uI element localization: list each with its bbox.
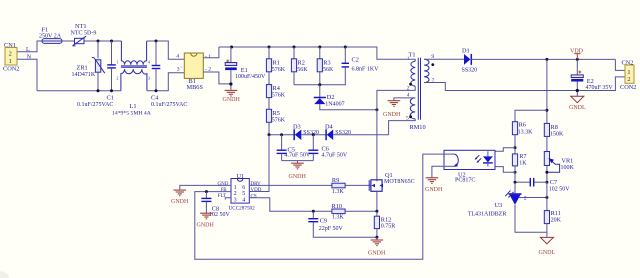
- diode D1 SS320: [424, 47, 615, 73]
- svg-text:Q1: Q1: [385, 172, 393, 179]
- resistor R11 20K: [544, 182, 561, 237]
- capacitor C5 4.7uF 50V: [277, 135, 311, 161]
- svg-text:102 50V: 102 50V: [549, 187, 571, 193]
- capacitor C2 6.8nF 1KV: [342, 47, 380, 72]
- svg-text:L1: L1: [130, 103, 137, 110]
- resistor R6 13.3K: [512, 110, 547, 148]
- resistor R5 576K: [266, 109, 285, 123]
- diode D2 1N4007: [314, 85, 377, 110]
- node junction bottom rail at ZR1: [97, 89, 100, 92]
- node junction R12 bottom at C9: [375, 236, 378, 239]
- resistor R2 56K: [291, 47, 308, 85]
- svg-text:3: 3: [148, 77, 150, 81]
- op-amp U1 UCC287502 controller: [229, 173, 256, 212]
- svg-text:MOT8N65C: MOT8N65C: [384, 179, 415, 185]
- wire opto LED anode: [495, 148, 515, 152]
- wire T1 pin4 to ground: [394, 98, 415, 101]
- svg-text:C2: C2: [352, 57, 359, 64]
- svg-text:NTC 5D-9: NTC 5D-9: [71, 31, 97, 37]
- capacitor C6 4.7uF 50V: [308, 135, 348, 161]
- svg-text:D4: D4: [325, 123, 334, 130]
- resistor R12 0.75R: [374, 211, 395, 237]
- svg-text:VDD: VDD: [251, 188, 262, 193]
- fuse F1 250V 2A: [39, 27, 74, 44]
- node junction diode row at R5: [268, 133, 271, 136]
- svg-text:U3: U3: [495, 202, 503, 209]
- transistor Q1 MOT8N65C: [369, 172, 414, 211]
- node junction Vout rail at R8 column: [545, 58, 548, 61]
- wire HV DC top rail: [219, 47, 415, 61]
- svg-text:SS320: SS320: [335, 130, 351, 136]
- resistor R9 1.3K: [332, 177, 370, 195]
- node junction DC rail at R1: [268, 46, 271, 49]
- node junction drain at D2: [375, 108, 378, 111]
- svg-text:R6: R6: [519, 121, 526, 128]
- svg-text:1: 1: [9, 58, 12, 65]
- svg-text:NT1: NT1: [75, 23, 87, 30]
- svg-text:56K: 56K: [297, 67, 308, 73]
- svg-text:100uF/450V: 100uF/450V: [235, 74, 266, 80]
- capacitor C4 0.1uF/275VAC: [151, 41, 187, 108]
- svg-text:GNDH: GNDH: [289, 174, 307, 180]
- ground GNDH at C8: [197, 213, 215, 228]
- pin VDD U1 wire: [249, 135, 269, 193]
- ground GNDH at T1 pin4: [383, 101, 401, 118]
- svg-text:C9: C9: [320, 217, 327, 224]
- svg-text:0.1uF/275VAC: 0.1uF/275VAC: [151, 102, 187, 108]
- svg-text:1: 1: [117, 61, 119, 65]
- svg-text:UCC287502: UCC287502: [229, 206, 256, 212]
- node junction DC rail at R3: [318, 46, 321, 49]
- svg-text:R5: R5: [273, 110, 280, 117]
- svg-text:576K: 576K: [272, 67, 286, 73]
- svg-text:D1: D1: [462, 47, 470, 54]
- svg-text:R3: R3: [323, 59, 330, 66]
- svg-text:R12: R12: [381, 216, 392, 223]
- node junction bottom rail at C1: [110, 89, 113, 92]
- node junction mid rail at D2: [318, 83, 321, 86]
- svg-text:1.3K: 1.3K: [332, 189, 345, 195]
- svg-text:SS320: SS320: [303, 130, 319, 136]
- svg-text:1: 1: [627, 69, 630, 76]
- svg-text:SS320: SS320: [462, 67, 478, 73]
- capacitor E2 470uF 35V: [571, 59, 613, 96]
- svg-text:576K: 576K: [272, 93, 286, 99]
- node junction diode row at C6: [312, 133, 315, 136]
- svg-text:GNDL: GNDL: [569, 105, 586, 111]
- node junction source at R10: [375, 210, 378, 213]
- node junction opto anode R6 R7: [514, 146, 517, 149]
- svg-text:1: 1: [234, 185, 237, 191]
- svg-text:CN2: CN2: [622, 59, 634, 66]
- wire Vout rail to CN2 pin1: [615, 59, 625, 70]
- wire B1 pin2 to ground node: [203, 72, 231, 84]
- svg-text:GNDH: GNDH: [197, 223, 215, 229]
- svg-text:1.3K: 1.3K: [332, 215, 345, 221]
- pin GND U1 wire: [180, 182, 231, 190]
- capacitor C1 0.1uF/275VAC: [77, 41, 116, 108]
- svg-text:13.3K: 13.3K: [518, 129, 534, 135]
- ground GNDH at C5 C6: [289, 163, 307, 180]
- inductor L1 common-mode choke 14*9*5 5MH 4A: [112, 41, 152, 116]
- diode D4 SS320: [325, 123, 389, 140]
- svg-text:RM10: RM10: [410, 124, 426, 131]
- wire opto LED cathode: [495, 167, 515, 173]
- optocoupler U2 PC817C: [444, 150, 495, 183]
- svg-text:R11: R11: [551, 210, 561, 217]
- svg-text:T1: T1: [409, 52, 416, 59]
- node junction Vout rail at E2: [576, 58, 579, 61]
- svg-text:TL431AIDBZR: TL431AIDBZR: [468, 212, 507, 218]
- wire T1 pin5 to D4: [389, 119, 416, 135]
- svg-text:R1: R1: [273, 59, 280, 66]
- svg-text:E2: E2: [587, 78, 594, 85]
- node junction L-rail at C1: [110, 40, 113, 43]
- varistor ZR1 14D471K: [72, 41, 105, 91]
- svg-text:GNDH: GNDH: [383, 112, 401, 118]
- svg-text:4: 4: [242, 197, 245, 203]
- node junction FB at C8: [205, 190, 208, 193]
- svg-text:PC817C: PC817C: [455, 178, 475, 184]
- thermistor NT1 NTC 5D-9: [71, 23, 97, 46]
- svg-text:GNDH: GNDH: [171, 199, 189, 205]
- pin FLT U1 stub: [218, 194, 231, 199]
- node junction CS row at C9: [312, 210, 315, 213]
- svg-text:5: 5: [242, 191, 245, 197]
- node N: [27, 55, 32, 61]
- pin DRV U1 wire to R9: [249, 182, 332, 187]
- resistor R3 56K: [317, 47, 334, 85]
- svg-text:CON2: CON2: [3, 66, 19, 73]
- svg-text:56K: 56K: [323, 67, 334, 73]
- ground GNDH at E1: [223, 90, 241, 103]
- svg-text:2: 2: [407, 86, 410, 92]
- node junction E1 negative and B1 pin2: [229, 82, 232, 85]
- resistor R1 576K: [266, 47, 285, 73]
- svg-text:3: 3: [234, 197, 237, 203]
- svg-text:2: 2: [627, 76, 630, 83]
- svg-text:150K: 150K: [550, 132, 564, 138]
- svg-text:2: 2: [9, 51, 12, 58]
- node junction C7 right: [545, 181, 548, 184]
- capacitor E1 100uF/450V: [225, 47, 266, 90]
- regulator U3 TL431AIDBZR: [468, 182, 547, 232]
- resistor R7 1K: [512, 148, 527, 183]
- svg-text:4.7uF 50V: 4.7uF 50V: [322, 152, 348, 158]
- svg-text:MB6S: MB6S: [187, 84, 204, 91]
- connector CN1: [3, 42, 19, 73]
- node L: [26, 47, 30, 53]
- svg-text:CS: CS: [251, 194, 257, 199]
- svg-text:2: 2: [117, 77, 119, 81]
- svg-text:4: 4: [176, 53, 179, 59]
- svg-text:GNDH: GNDH: [223, 97, 241, 103]
- wire R5 to VDD diode row: [268, 122, 270, 134]
- node junction C7 left at U3 cathode: [514, 181, 517, 184]
- svg-text:L: L: [26, 47, 30, 53]
- svg-text:14*9*5 5MH 4A: 14*9*5 5MH 4A: [112, 110, 152, 116]
- svg-text:GNDL: GNDL: [539, 250, 556, 256]
- svg-text:6.8nF 1KV: 6.8nF 1KV: [352, 66, 380, 72]
- resistor R10 1.3K: [332, 203, 377, 221]
- resistor R4 576K: [266, 85, 285, 99]
- wire opto emitter to ground: [432, 166, 444, 177]
- svg-text:14D471K: 14D471K: [72, 72, 96, 78]
- svg-text:CN1: CN1: [4, 42, 16, 49]
- node junction R6 R8 split: [545, 109, 548, 112]
- potentiometer VR1 100K: [544, 152, 574, 183]
- node junction opto cathode R7 bottom: [514, 171, 517, 174]
- wire bottom rail right segment to B1 pin3: [147, 73, 184, 91]
- svg-text:576K: 576K: [272, 117, 286, 123]
- svg-text:2: 2: [524, 196, 527, 202]
- pin FB U1 wire to opto collector: [195, 154, 444, 259]
- svg-text:470uF 35V: 470uF 35V: [586, 85, 614, 91]
- wire L1 to C4 and B1 pin4: [147, 41, 185, 59]
- svg-text:R8: R8: [551, 124, 558, 131]
- wire R4 to R5: [268, 98, 270, 110]
- node junction DC rail at E1: [230, 46, 233, 49]
- svg-text:0.75R: 0.75R: [381, 224, 396, 230]
- svg-text:ZR1: ZR1: [77, 64, 88, 71]
- ground GNDL at E2: [569, 96, 586, 111]
- wire VDD column to R6 R8: [546, 59, 548, 123]
- wire secondary return rail T1 pin7 to CN2: [424, 77, 625, 91]
- node junction L-rail at ZR1: [97, 40, 100, 43]
- wire VDD aux diode row: [269, 134, 294, 136]
- node junction diode row at C5: [280, 133, 283, 136]
- svg-text:4.7uF 50V: 4.7uF 50V: [285, 152, 311, 158]
- wire CN1 pin2 to fuse F1: [17, 41, 42, 52]
- svg-text:4: 4: [148, 61, 150, 65]
- svg-text:FB: FB: [221, 188, 228, 193]
- node junction VR1 wiper bottom: [545, 171, 548, 174]
- svg-text:E1: E1: [241, 67, 248, 74]
- node junction TL431 ref at R11: [545, 196, 548, 199]
- svg-text:R10: R10: [332, 203, 343, 210]
- ground GNDH at U1 GND pin: [171, 190, 189, 205]
- ground GNDH at R12: [368, 237, 386, 257]
- wire snubber mid rail: [294, 67, 345, 85]
- svg-text:GNDH: GNDH: [368, 251, 386, 257]
- transformer T1 RM10: [406, 52, 435, 131]
- power VDD symbol: [570, 49, 584, 59]
- wire R1 to R4: [268, 72, 270, 85]
- svg-text:R9: R9: [332, 177, 339, 184]
- svg-text:1N4007: 1N4007: [325, 102, 344, 108]
- svg-text:D2: D2: [327, 94, 335, 101]
- wire bottom rail left segment: [37, 90, 121, 92]
- corner artifact: [0, 271, 9, 278]
- node junction DC rail at C2: [344, 46, 347, 49]
- svg-text:6: 6: [242, 185, 245, 191]
- svg-text:C1: C1: [107, 95, 114, 102]
- bridge rectifier B1 MB6S: [176, 53, 211, 91]
- svg-text:7: 7: [432, 78, 435, 84]
- wire B1 pin1 to DC rail: [203, 47, 219, 58]
- svg-text:100K: 100K: [561, 165, 575, 171]
- node junction bottom rail at C4: [155, 89, 158, 92]
- svg-text:C4: C4: [151, 95, 159, 102]
- wire CN1 pin1 to bottom rail: [17, 59, 37, 90]
- resistor R8 150K: [544, 123, 564, 151]
- wire C5 C6 ground link: [282, 161, 314, 163]
- capacitor C8 102 50V: [201, 192, 230, 219]
- ground GNDH at opto emitter: [425, 178, 443, 193]
- svg-text:0.1uF/275VAC: 0.1uF/275VAC: [77, 102, 113, 108]
- node junction top rail at C4: [155, 40, 158, 43]
- svg-text:C7: C7: [550, 179, 557, 186]
- svg-text:CON2: CON2: [620, 84, 636, 91]
- node junction DC rail at R2: [293, 46, 296, 49]
- node junction return rail at E2: [576, 89, 579, 92]
- svg-text:R4: R4: [273, 85, 281, 92]
- svg-text:GNDH: GNDH: [425, 187, 443, 193]
- svg-text:DRV: DRV: [251, 182, 262, 187]
- svg-text:U1: U1: [237, 173, 245, 180]
- svg-text:~: ~: [180, 65, 183, 70]
- wire NT1 to bridge top rail: [84, 40, 121, 42]
- svg-text:D3: D3: [293, 123, 301, 130]
- diode D3 SS320: [293, 123, 326, 140]
- svg-text:GND: GND: [218, 182, 229, 187]
- svg-text:22pF 50V: 22pF 50V: [319, 226, 344, 232]
- pin CS U1 wire to R10: [249, 194, 332, 211]
- svg-text:R2: R2: [298, 59, 305, 66]
- wire T1 pin2 to Q1 drain: [377, 86, 415, 181]
- svg-text:1K: 1K: [519, 161, 527, 167]
- ground GNDL at R11 U3: [539, 237, 556, 255]
- capacitor C9 22pF 50V: [308, 211, 377, 237]
- svg-text:20K: 20K: [551, 217, 562, 223]
- svg-text:R7: R7: [519, 153, 526, 160]
- svg-text:2: 2: [234, 191, 237, 197]
- capacitor C7 102 50V: [515, 178, 570, 193]
- svg-text:VR1: VR1: [561, 157, 573, 164]
- connector CN2: [620, 59, 636, 91]
